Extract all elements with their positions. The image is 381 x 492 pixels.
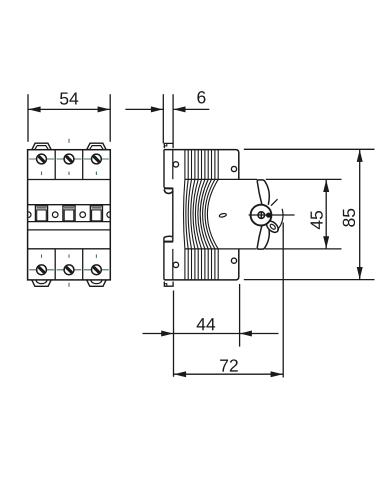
terminal screw top pole3 xyxy=(92,154,102,164)
dimension 72 arrow left xyxy=(174,371,186,377)
knob pivot dot xyxy=(266,213,271,218)
dimension 6 text xyxy=(197,91,205,103)
dimension 6 extension line right xyxy=(172,94,174,143)
rivet bottom right xyxy=(231,258,236,263)
terminal screw bottom pole2 xyxy=(64,265,74,275)
side view lower rail claw arc xyxy=(164,236,172,237)
side view lower rail claw bar xyxy=(164,241,173,243)
dimension 45 line xyxy=(325,179,327,249)
dimension 54 extension line left xyxy=(27,94,29,142)
rivet top right xyxy=(231,166,236,171)
toggle row bottom line xyxy=(28,221,111,223)
dimension 54 arrow right xyxy=(98,106,110,112)
dimension 85 line xyxy=(359,149,361,279)
dimension 54 line xyxy=(28,108,110,110)
toggle bezel top wing xyxy=(257,180,269,205)
linkage pin half circle right xyxy=(107,212,110,218)
dimension 44 extension line right xyxy=(239,284,241,347)
toggle knob outer circle xyxy=(251,205,272,226)
dimension 45 extension line top xyxy=(266,178,342,180)
dimension 44 extension line left xyxy=(173,291,175,377)
lever swing arc xyxy=(277,209,283,230)
terminal screw bottom pole1 xyxy=(37,265,47,275)
side view rail channel floor xyxy=(172,189,174,241)
bottom terminal divider 2 xyxy=(82,249,84,280)
toggle bezel bottom wing xyxy=(257,224,269,249)
knob horizontal centerline xyxy=(249,214,295,216)
dimension 6 arrow right xyxy=(174,106,186,112)
dimension 72 extension line right xyxy=(282,223,284,378)
rivet bottom left xyxy=(173,262,178,267)
side view inner back line upper xyxy=(172,150,174,180)
dimension 45 extension line bottom xyxy=(265,248,342,250)
dimension 54 extension line right xyxy=(109,94,111,142)
top mounting clip pole1 xyxy=(32,143,51,150)
toggle row top line xyxy=(28,204,111,206)
dimension 44 arrow left xyxy=(161,331,173,337)
mid horizontal line xyxy=(28,229,111,231)
dimension 72 line xyxy=(174,373,284,375)
top terminal divider 1 xyxy=(54,150,56,180)
lever swing dash xyxy=(271,199,278,206)
centerline bottom screw row xyxy=(29,254,109,286)
dimension 85 arrow bottom xyxy=(357,267,363,279)
side view bottom tab xyxy=(164,282,173,287)
top terminal section bottom line xyxy=(28,179,111,181)
dimension 44 line xyxy=(143,333,279,335)
toggle handle pole3 xyxy=(90,206,102,221)
side view body outline xyxy=(164,150,239,280)
bottom mounting clip pole1 xyxy=(32,280,51,286)
dimension 44 text xyxy=(197,318,216,330)
dimension 54 text xyxy=(60,92,78,104)
toggle handle pole2 xyxy=(63,206,75,221)
housing ribs bottom xyxy=(185,249,218,280)
linkage pin half circle left xyxy=(28,212,31,218)
dimension 45 arrow bottom xyxy=(323,236,329,248)
housing curved ribs middle xyxy=(184,179,219,249)
linkage pin circle 1 xyxy=(52,212,58,218)
knob screw circle xyxy=(258,212,265,219)
label slot ellipse xyxy=(219,213,227,218)
toggle lever oval xyxy=(264,219,280,235)
toggle handle pole1 xyxy=(35,206,47,221)
side view upper rail claw bar xyxy=(164,187,173,189)
side view bottom shoulder line xyxy=(185,248,257,250)
dimension 6 left tail xyxy=(125,108,163,110)
dimension 72 arrow right xyxy=(271,371,283,377)
terminal screw bottom pole3 xyxy=(92,265,102,275)
terminal screw top pole2 xyxy=(64,154,74,164)
housing ribs top xyxy=(185,150,218,180)
rivet top left xyxy=(173,162,178,167)
side view DIN back face upper xyxy=(163,150,165,188)
dimension 85 arrow top xyxy=(357,150,363,162)
knob screw cross xyxy=(260,212,262,219)
terminal screw top pole1 xyxy=(37,154,47,164)
side view inner back line lower xyxy=(172,249,174,280)
top mounting clip pole3 xyxy=(87,143,106,150)
top terminal divider 2 xyxy=(82,150,84,180)
bottom terminal divider 1 xyxy=(54,249,56,280)
side view DIN back face lower xyxy=(164,238,166,280)
dimension 85 text xyxy=(343,209,355,227)
dimension 45 text xyxy=(311,211,323,229)
dimension 85 extension line bottom xyxy=(244,279,375,281)
dimension 6 extension line left xyxy=(162,94,164,143)
dimension 72 text xyxy=(220,359,238,371)
side view top tab notch xyxy=(164,143,167,146)
dimension 6 arrow left xyxy=(151,106,163,112)
bottom terminal section top line xyxy=(28,248,111,250)
dimension 6 right tail xyxy=(173,108,209,110)
side view bottom tab notch xyxy=(164,284,167,287)
side view top shoulder line xyxy=(185,178,257,180)
bottom mounting clip pole3 xyxy=(87,280,106,286)
linkage pin circle 2 xyxy=(80,212,86,218)
dimension 44 arrow right xyxy=(240,331,252,337)
dimension 45 arrow top xyxy=(323,180,329,192)
side view upper rail claw hook xyxy=(164,189,173,193)
side view top tab xyxy=(164,143,173,148)
front view body outline xyxy=(28,150,111,280)
dimension 85 extension line top xyxy=(244,148,375,150)
centerline top screw row xyxy=(29,139,109,175)
dimension 54 arrow left xyxy=(28,106,40,112)
